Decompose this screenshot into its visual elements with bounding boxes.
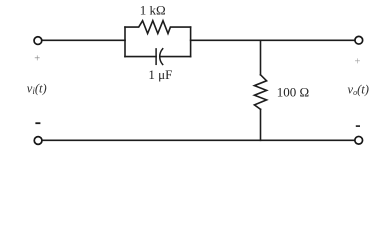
- svg-text:1 μF: 1 μF: [148, 67, 172, 82]
- wire shunt branch lower: [260, 109, 262, 140]
- svg-text:1 kΩ: 1 kΩ: [140, 3, 166, 18]
- resistor R1 1 kOhm (top branch zigzag): [125, 21, 191, 34]
- wire shunt branch upper: [260, 40, 262, 75]
- terminal top-left: [34, 37, 42, 45]
- svg-text:100 Ω: 100 Ω: [277, 85, 309, 100]
- terminal top-right: [355, 36, 363, 44]
- wire bottom rail: [43, 139, 355, 141]
- svg-text:+: +: [355, 56, 361, 67]
- wire top-right segment: [191, 39, 355, 41]
- wire parallel-box right vertical: [190, 27, 192, 56]
- resistor R2 100 Ohm (vertical zigzag): [254, 75, 266, 110]
- svg-text:vi(t): vi(t): [27, 82, 47, 97]
- wire parallel-box left vertical: [124, 27, 126, 56]
- svg-text:vo(t): vo(t): [348, 83, 369, 98]
- capacitor C1 1 uF curved plate: [160, 49, 163, 65]
- terminal bottom-left: [34, 137, 42, 145]
- polarity minus right: [356, 125, 360, 127]
- polarity minus left: [35, 122, 40, 124]
- wire capacitor branch right: [160, 56, 190, 58]
- wire top-left segment: [42, 39, 125, 41]
- svg-text:+: +: [34, 53, 40, 64]
- wire capacitor branch left: [125, 56, 156, 58]
- capacitor C1 1 uF flat plate: [155, 49, 157, 64]
- terminal bottom-right: [355, 136, 363, 144]
